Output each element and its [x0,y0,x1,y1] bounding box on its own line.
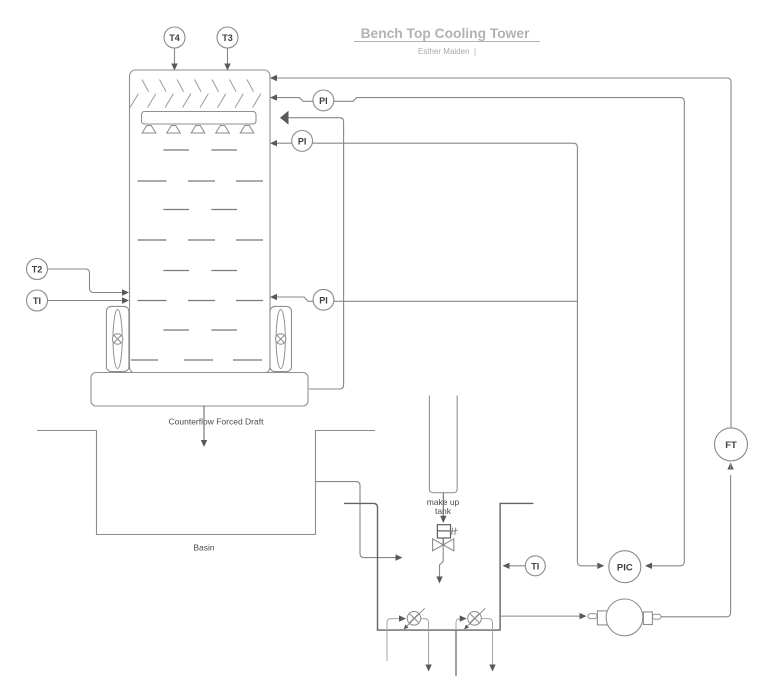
wire PI-2 line left of instrument [270,140,292,146]
wire TI to tower [48,297,130,303]
instrument PI-3 [313,289,334,310]
wire T2 to tower [48,269,130,296]
pump inlet port [597,611,607,625]
valve V1 outlet arrow [425,665,431,672]
right fan housing [270,306,292,371]
svg-text:T2: T2 [32,265,43,275]
instrument T3 [217,27,238,48]
valve V2 inlet loop [456,615,467,630]
make up tank [429,396,457,493]
distribution header [142,112,257,125]
left fan hub [112,334,122,344]
svg-text:tank: tank [435,506,452,516]
actuator vent marks [450,528,458,536]
packing dashes row 6 [138,300,264,302]
wire PI-1 to PIC right side [334,98,685,569]
valve V2 outlet arrow [489,665,495,672]
instrument TI left [27,290,48,311]
valve V1 left stub below manifold [386,631,388,662]
packing dashes row 1 [164,149,238,151]
left fan housing [106,306,128,371]
wire PI-1 line left of instrument [270,94,313,101]
pump inlet nozzle [588,614,597,619]
valve V1 manual slash arrow [404,608,425,629]
packing dashes row 4 [138,239,264,241]
tower base [91,373,308,407]
wire PI-3 to PIC riser junction [334,300,578,302]
packing dashes row 3 [164,209,238,211]
wire basin drain branch with arrow [316,482,403,561]
svg-text:Counterflow Forced Draft: Counterflow Forced Draft [169,417,265,427]
cooling tower vessel [130,70,271,373]
svg-text:T3: T3 [222,33,233,43]
valve actuator box [437,525,450,538]
svg-text:Basin: Basin [193,543,215,553]
wire T4 to tower top [171,48,177,71]
valve V1 inlet loop [387,615,406,630]
title underline [354,41,540,43]
wire pump discharge to FT [661,475,731,617]
svg-text:Esther Maiden |: Esther Maiden | [418,47,476,56]
instrument PIC [609,551,641,583]
basin [37,431,375,535]
main supply big arrow into tower [280,111,344,389]
svg-text:PI: PI [319,96,328,106]
svg-text:T4: T4 [169,33,180,43]
instrument TI bottom [525,556,545,576]
packing dashes row 7 [164,329,238,331]
pump outlet port [643,612,652,625]
svg-text:PI: PI [319,295,328,305]
wire valve outlet down [436,545,443,584]
control valve bowtie [433,539,454,551]
wire PI-2 to PIC left side [312,143,604,569]
wire pump suction line [500,613,586,619]
valve stem [442,538,444,545]
pump outlet nozzle [653,614,662,619]
valve V2 outlet loop [481,619,492,666]
wire FT inlet stub [730,463,732,469]
wire PI-3 line left of instrument [270,294,313,302]
packing dashes row 8 [131,359,262,361]
wire T3 to tower top [224,48,230,71]
right fan blade [276,310,285,369]
spray nozzles [142,126,254,134]
valve V1 body [407,612,421,626]
svg-text:FT: FT [725,440,737,451]
instrument T2 [27,259,48,280]
wire tank outlet down [440,493,446,523]
drift eliminator hatch row 1 [142,80,254,92]
instrument PI-1 [313,90,334,111]
wire TI to riser [503,563,526,569]
valve V2 manual slash arrow [464,608,485,629]
valve V2 body [468,612,482,626]
svg-text:Bench Top Cooling Tower: Bench Top Cooling Tower [361,26,531,41]
svg-text:TI: TI [33,296,41,306]
left fan blade [113,310,122,369]
instrument T4 [164,27,185,48]
packing dashes row 5 [164,270,238,272]
pump body [606,599,643,636]
wire recirculation to tower top (from FT riser) [270,75,731,428]
svg-text:PI: PI [298,137,307,147]
arrow into FT [727,463,733,470]
draft arrow down from base [201,406,207,447]
valve V2 left stub below manifold [455,631,457,677]
valve V1 outlet loop [421,619,429,666]
drift eliminator hatch row 2 [130,94,261,108]
label make up tank [427,497,460,516]
right fan hub [276,334,286,344]
svg-text:TI: TI [531,561,539,571]
svg-text:PIC: PIC [617,562,633,573]
packing dashes row 2 [138,180,264,182]
instrument PI-2 [292,131,313,152]
wire feed pipe to manifold and riser [344,503,534,630]
instrument FT [715,428,748,461]
